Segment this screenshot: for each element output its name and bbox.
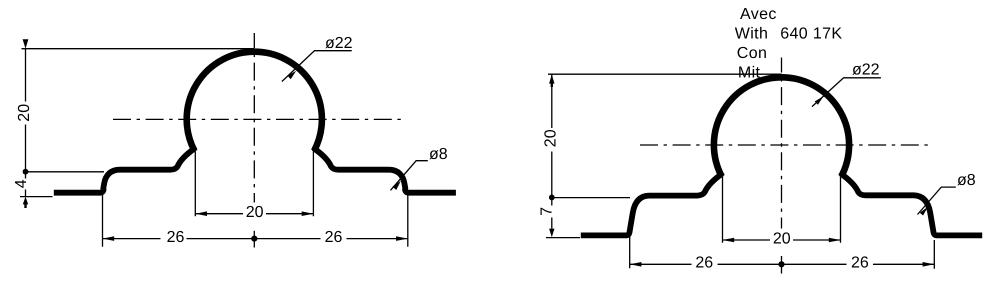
svg-text:ø22: ø22 — [325, 35, 353, 52]
svg-text:4: 4 — [13, 179, 30, 188]
svg-text:Mit: Mit — [738, 65, 761, 82]
svg-text:640 17K: 640 17K — [780, 25, 842, 42]
svg-text:ø22: ø22 — [852, 62, 880, 79]
svg-text:26: 26 — [167, 229, 185, 246]
svg-text:26: 26 — [325, 229, 343, 246]
svg-text:With: With — [735, 25, 768, 42]
svg-text:20: 20 — [773, 230, 791, 247]
svg-text:26: 26 — [851, 255, 869, 272]
svg-text:20: 20 — [542, 129, 559, 147]
svg-text:20: 20 — [246, 204, 264, 221]
svg-text:20: 20 — [16, 104, 33, 122]
svg-text:ø8: ø8 — [957, 172, 976, 189]
svg-text:Avec: Avec — [740, 6, 777, 23]
svg-text:Con: Con — [737, 45, 767, 62]
svg-text:7: 7 — [539, 207, 556, 216]
svg-text:26: 26 — [695, 255, 713, 272]
svg-text:ø8: ø8 — [429, 146, 448, 163]
